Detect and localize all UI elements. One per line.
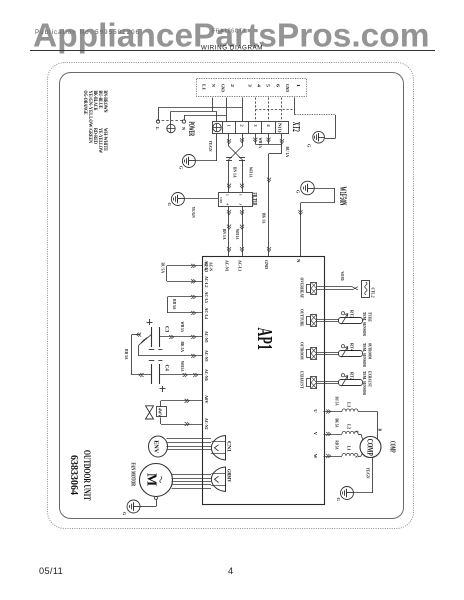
svg-text:COMP: COMP <box>389 441 397 453</box>
wire filter out 2 <box>242 206 244 257</box>
filter box <box>219 193 253 207</box>
svg-text:GND: GND <box>221 84 226 92</box>
dashed ground jumper <box>255 109 295 111</box>
wire XT2-2 crossover <box>242 134 244 147</box>
power terminal N <box>182 120 185 123</box>
svg-text:TEM. SENSOR: TEM. SENSOR <box>362 312 367 337</box>
dashed wire strip to XT2-N <box>281 98 283 122</box>
dashed wire strip to XT2-3 <box>255 98 257 122</box>
svg-text:L1: L1 <box>346 446 351 452</box>
svg-text:AC-N3: AC-N3 <box>204 350 209 362</box>
svg-text:WH 1A: WH 1A <box>258 138 263 149</box>
inline connector on wire 2 <box>239 157 245 159</box>
wire XT2 ground to G1 <box>216 134 218 162</box>
svg-text:G: G <box>307 144 312 148</box>
svg-text:1: 1 <box>227 125 232 127</box>
svg-text:XT2: XT2 <box>290 122 301 132</box>
svg-text:L: L <box>155 127 160 130</box>
svg-text:OG-ORANGE: OG-ORANGE <box>82 91 88 115</box>
svg-text:N(1): N(1) <box>278 123 282 134</box>
svg-text:63833064: 63833064 <box>68 455 80 495</box>
svg-text:YE/GN: YE/GN <box>208 141 213 153</box>
svg-text:3: 3 <box>253 125 258 127</box>
capacitor C4 <box>151 364 153 384</box>
svg-text:OUTDOOR UNIT: OUTDOOR UNIT <box>82 450 92 501</box>
wire strip GND to ground G3 <box>294 98 296 115</box>
wire 4WV to AP1 pin A0V <box>160 401 162 407</box>
wire filter out 1 <box>228 206 230 257</box>
svg-text:L3: L3 <box>346 402 351 408</box>
svg-text:RD 5A: RD 5A <box>334 441 338 450</box>
svg-text:RT3: RT3 <box>350 310 355 319</box>
svg-text:OUTROOM: OUTROOM <box>299 342 304 360</box>
sensor ENV <box>149 436 168 457</box>
wire from strip to power ground screw <box>212 98 214 112</box>
wire C3 to AP1 <box>159 336 202 338</box>
ground G6 <box>127 500 140 513</box>
svg-text:S: S <box>354 456 358 458</box>
dashed mains boundary <box>157 120 185 122</box>
svg-text:FAN MOTOR: FAN MOTOR <box>130 463 137 487</box>
svg-text:RD 5A: RD 5A <box>124 349 129 360</box>
wire L1 from strip to power terminal L <box>242 98 244 122</box>
svg-text:A0V: A0V <box>204 395 209 404</box>
svg-text:G: G <box>167 203 172 207</box>
svg-text:AC-N4: AC-N4 <box>204 369 209 381</box>
power terminal L <box>156 120 159 123</box>
svg-text:AC-N1: AC-N1 <box>225 260 230 272</box>
svg-text:BK 1A: BK 1A <box>261 213 266 224</box>
svg-text:EXHAUST: EXHAUST <box>299 371 304 389</box>
svg-text:WH 5A: WH 5A <box>180 322 185 333</box>
svg-text:C3: C3 <box>164 326 170 333</box>
capacitor bus wire <box>131 335 133 375</box>
svg-text:COM: COM <box>219 197 223 203</box>
svg-text:AC-L5: AC-L5 <box>204 292 209 304</box>
capacitor C3 <box>151 327 153 347</box>
svg-text:AC-L1: AC-L1 <box>238 260 243 272</box>
svg-text:WH 1A: WH 1A <box>235 229 240 240</box>
svg-text:YE/GN: YE/GN <box>365 468 370 480</box>
svg-text:AC-L2: AC-L2 <box>204 276 209 288</box>
wires ENV to CN1 <box>167 438 212 440</box>
svg-text:M: M <box>144 473 159 486</box>
svg-text:C: C <box>354 431 358 434</box>
svg-text:G: G <box>179 166 184 170</box>
svg-text:BU 1A: BU 1A <box>285 147 290 158</box>
svg-text:W10 RD: W10 RD <box>340 272 344 281</box>
wire XT2-1 crossover <box>228 134 230 147</box>
svg-text:COMP: COMP <box>366 439 375 456</box>
connector GRMV <box>211 467 225 492</box>
svg-text:RT4: RT4 <box>350 343 355 352</box>
wire bus to C4 <box>132 374 151 376</box>
svg-text:FILTER: FILTER <box>251 193 257 206</box>
power ground screw <box>167 124 175 132</box>
ground G1 <box>182 155 195 168</box>
svg-text:2: 2 <box>240 125 245 127</box>
svg-text:AC-L4: AC-L4 <box>204 308 209 320</box>
svg-text:WH 5A: WH 5A <box>180 361 185 372</box>
wire compressor to ground G5 <box>372 458 374 494</box>
svg-text:W: W <box>313 454 318 459</box>
ground G2 <box>171 193 184 206</box>
svg-text:G: G <box>336 498 341 502</box>
svg-text:BK 5A: BK 5A <box>334 419 338 428</box>
connector CN1 <box>211 436 225 461</box>
wire G4 loop to AP1 <box>314 188 334 190</box>
svg-text:GND: GND <box>264 260 269 270</box>
svg-text:RT2: RT2 <box>350 372 355 381</box>
svg-text:TEM. SENSOR: TEM. SENSOR <box>362 371 367 396</box>
valve 4WV <box>146 406 154 419</box>
svg-text:BN 1A: BN 1A <box>222 229 227 240</box>
svg-text:CN1: CN1 <box>225 441 230 453</box>
svg-text:AP1: AP1 <box>253 328 277 351</box>
svg-text:ENV: ENV <box>153 440 160 454</box>
svg-text:R: R <box>377 429 381 432</box>
svg-text:G: G <box>122 512 127 516</box>
terminal strip to indoor unit <box>197 79 307 97</box>
title rule <box>30 50 435 52</box>
wire C4 to AP1 <box>159 374 202 376</box>
terminal block XT2 <box>213 122 289 134</box>
svg-text:GND: GND <box>285 84 290 92</box>
svg-text:L2: L2 <box>346 424 351 430</box>
dashed wire strip to XT2-4 <box>268 98 270 122</box>
compressor COMP <box>360 437 381 458</box>
control board AP1 <box>203 257 325 505</box>
svg-text:AC-L3: AC-L3 <box>204 261 209 273</box>
svg-text:POWER: POWER <box>187 122 197 137</box>
svg-text:BN 1A: BN 1A <box>233 167 238 178</box>
inline connector on wire 1 <box>226 157 232 159</box>
ground G5 <box>341 487 354 500</box>
svg-text:1: 1 <box>296 84 301 87</box>
svg-text:CTL.2: CTL.2 <box>371 288 376 299</box>
jumper loop 2 <box>167 297 169 313</box>
svg-text:/GREEN: /GREEN <box>87 127 93 143</box>
svg-text:L1: L1 <box>202 84 207 90</box>
wire XT2-3 <box>255 134 257 145</box>
wire 4WV to AP1 pin AC-N2 <box>160 418 162 425</box>
wire ground G2 to filter <box>184 198 218 200</box>
wires motor to GRMV <box>172 474 212 476</box>
fan motor M <box>140 464 173 497</box>
svg-text:AC-N2: AC-N2 <box>204 418 209 430</box>
svg-text:WH 1A: WH 1A <box>248 167 253 178</box>
svg-text:YE/GN: YE/GN <box>191 207 196 219</box>
ground G3 <box>313 131 325 143</box>
wire motor to ground G6 <box>155 497 158 500</box>
svg-text:AC-N5: AC-N5 <box>204 331 209 343</box>
ground G4 <box>301 181 315 195</box>
svg-text:GRMV: GRMV <box>225 469 230 483</box>
wire XT2-4 <box>268 134 270 145</box>
svg-text:W1F50N: W1F50N <box>337 187 347 206</box>
wire N from strip to power terminal N <box>226 98 228 122</box>
svg-text:RD 5A: RD 5A <box>172 299 177 310</box>
svg-text:4WV: 4WV <box>158 408 163 417</box>
svg-text:OUTTUBE: OUTTUBE <box>299 309 304 327</box>
svg-text:G: G <box>296 190 301 194</box>
svg-text:C4: C4 <box>164 365 170 372</box>
svg-text:BU 5A: BU 5A <box>160 263 165 274</box>
wire XT2-N down to AP1 <box>281 134 283 154</box>
jumper loop 1 <box>166 266 168 281</box>
svg-text:OVERHEAT: OVERHEAT <box>299 278 304 299</box>
svg-text:2: 2 <box>230 84 235 87</box>
svg-text:BU 5A: BU 5A <box>334 397 338 406</box>
svg-text:BK 5A: BK 5A <box>180 342 185 353</box>
wire cap mid to AP1 <box>138 345 140 356</box>
svg-text:TEM. SENSOR: TEM. SENSOR <box>362 343 367 368</box>
